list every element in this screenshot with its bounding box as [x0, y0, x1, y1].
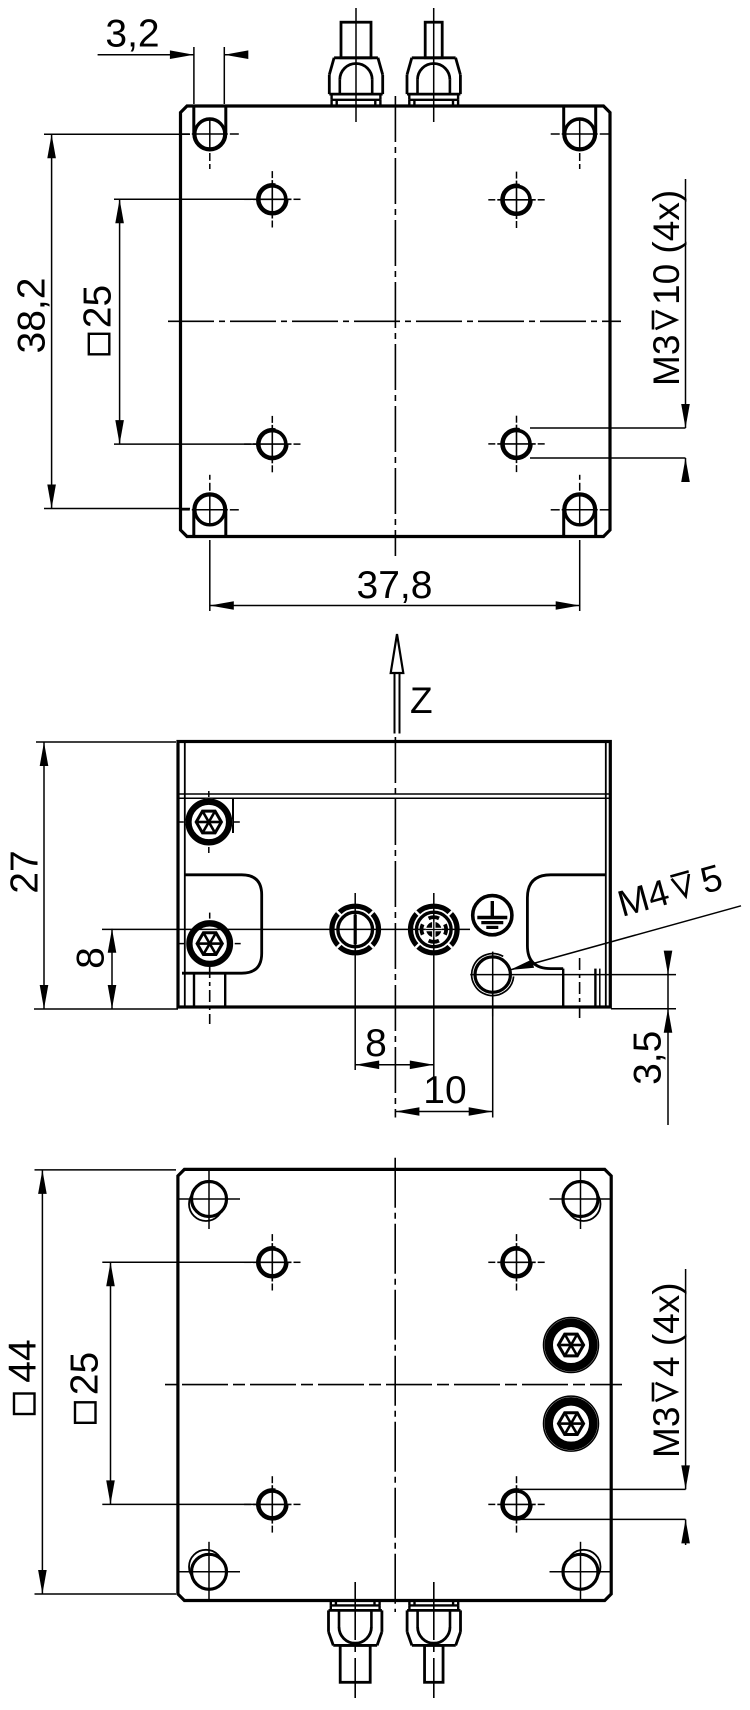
- dimension M4 depth 5 with leader: [510, 857, 741, 970]
- bottom view: cable gland left (bottom edge): [329, 1582, 382, 1698]
- front view: protective earth symbol: [473, 896, 512, 935]
- dimension 3,5 (right side): [512, 951, 676, 1125]
- dimension 10 (axis to M4 hole): [395, 993, 492, 1118]
- dimension square-44 (left): [2, 1170, 176, 1594]
- front view: left rounded notch: [182, 875, 262, 973]
- front view: bottom edge: [178, 1006, 610, 1009]
- bottom view: M3 threaded hole top-right: [488, 1234, 544, 1290]
- dimension 37,8 (below top view): [210, 540, 580, 611]
- svg-text:4 (4x): 4 (4x): [646, 1282, 687, 1377]
- dimension square-25 (bottom view): [64, 1262, 256, 1504]
- top view: vertical centerline: [394, 96, 396, 556]
- top view: housing body outline: [181, 106, 611, 537]
- bottom view: corner hole top-right: [550, 1169, 612, 1229]
- svg-text:3,5: 3,5: [627, 1031, 670, 1085]
- svg-text:10 (4x): 10 (4x): [646, 190, 687, 305]
- bottom view: M3 threaded hole bottom-left: [244, 1476, 300, 1532]
- bottom view: housing body outline: [178, 1169, 611, 1600]
- bottom view: vertical centerline: [394, 1158, 396, 1612]
- dimension square-25 (top view, vertical): [77, 199, 256, 444]
- front view: torx screw upper-left: [178, 791, 240, 853]
- front view: step edge near top-left screw: [232, 798, 234, 833]
- top view: corner slot hole bottom-left: [181, 475, 239, 537]
- top view: horizontal centerline: [168, 320, 621, 322]
- top view: corner slot hole top-right: [551, 106, 609, 169]
- top view: corner slot hole bottom-right: [551, 475, 609, 537]
- svg-text:M3: M3: [646, 335, 687, 386]
- front view: cable gland face left: [332, 906, 379, 953]
- top view: cable gland right (on top edge): [407, 8, 460, 122]
- front view: white cross on right gland center: [426, 928, 442, 931]
- front view: vertical centerline: [394, 737, 396, 1118]
- dimension M3 depth 4 (4x): [520, 1269, 690, 1545]
- bottom view: M3 threaded hole bottom-right: [488, 1476, 544, 1532]
- front view: outer body outline: [178, 742, 610, 1008]
- bottom view: M8 connector upper: [544, 1318, 599, 1373]
- dimension 27 (front view height): [4, 742, 178, 1009]
- top view: M3 threaded hole bottom-right: [488, 416, 544, 472]
- front view: torx screw lower-left: [179, 913, 241, 975]
- front view: cable gland face right: [411, 906, 458, 953]
- Z axis arrow: [391, 634, 433, 734]
- bottom view: horizontal centerline: [165, 1384, 622, 1386]
- front view: left foot: [194, 966, 225, 1024]
- dimension 38,2 (left, vertical): [11, 134, 190, 508]
- bottom view: cable gland right (bottom edge): [407, 1582, 460, 1698]
- svg-text:Z: Z: [410, 680, 433, 721]
- front view: lid seam lines: [178, 794, 610, 798]
- svg-text:8: 8: [365, 1022, 387, 1065]
- top view: M3 threaded hole bottom-left: [244, 416, 300, 472]
- svg-text:44: 44: [2, 1339, 45, 1382]
- svg-text:10: 10: [423, 1069, 466, 1112]
- front view: horizontal centerline through glands: [102, 928, 470, 930]
- svg-text:8: 8: [70, 947, 113, 969]
- dimension 8 (gland height, left): [70, 929, 117, 1009]
- svg-text:3,2: 3,2: [105, 12, 159, 55]
- top view: M3 threaded hole top-right: [488, 172, 544, 228]
- front view: right foot: [563, 958, 600, 1021]
- bottom view: M8 connector lower: [544, 1396, 599, 1451]
- svg-text:25: 25: [64, 1352, 107, 1395]
- svg-text:37,8: 37,8: [357, 564, 433, 607]
- front view: right rounded notch: [527, 875, 605, 969]
- top view: cable gland left (on top edge): [329, 8, 382, 122]
- top view: corner slot hole top-left: [181, 106, 239, 169]
- bottom view: corner hole bottom-right: [550, 1542, 612, 1601]
- svg-text:27: 27: [4, 850, 47, 893]
- top view: M3 threaded hole top-left: [244, 171, 300, 227]
- bottom view: M3 threaded hole top-left: [244, 1234, 300, 1290]
- svg-text:38,2: 38,2: [11, 278, 54, 354]
- bottom view: corner hole bottom-left: [178, 1542, 240, 1601]
- bottom view: corner hole top-left: [178, 1169, 240, 1229]
- dimension 3,2 (slot width): [98, 12, 249, 104]
- dimension M3 depth 10 (4x) with diameter arrows: [530, 179, 690, 482]
- dimension 8 (between glands, below): [355, 1022, 434, 1069]
- front view: M4 threaded hole: [470, 952, 513, 1017]
- front view: gland vertical centerlines: [354, 893, 356, 1070]
- svg-text:25: 25: [77, 285, 120, 328]
- svg-text:M3: M3: [646, 1407, 687, 1458]
